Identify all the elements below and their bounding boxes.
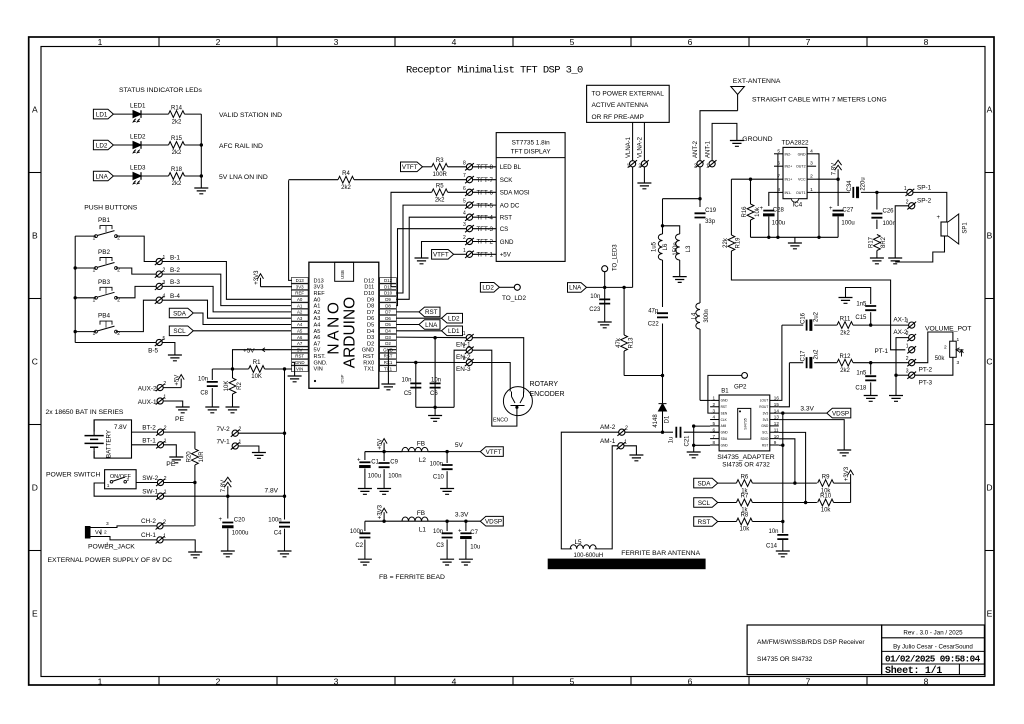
svg-text:B-1: B-1 <box>170 254 180 261</box>
svg-text:1n5: 1n5 <box>856 301 867 307</box>
svg-text:PB2: PB2 <box>98 249 111 256</box>
svg-text:10n: 10n <box>401 378 411 384</box>
svg-text:C3: C3 <box>436 543 444 549</box>
svg-text:OR RF PRE-AMP: OR RF PRE-AMP <box>592 114 645 121</box>
svg-text:4: 4 <box>163 294 166 300</box>
svg-text:A: A <box>987 105 993 115</box>
svg-text:RST: RST <box>363 354 375 360</box>
svg-text:R6: R6 <box>741 474 749 480</box>
svg-text:PB1: PB1 <box>98 217 111 224</box>
svg-text:GROUND: GROUND <box>742 136 772 143</box>
svg-text:RST: RST <box>425 309 438 316</box>
svg-text:14: 14 <box>774 408 780 413</box>
svg-text:REF: REF <box>295 291 304 296</box>
svg-text:2: 2 <box>463 235 466 241</box>
svg-text:D13: D13 <box>314 278 324 284</box>
svg-text:VTFT: VTFT <box>486 449 502 456</box>
svg-text:AX-1: AX-1 <box>893 316 908 323</box>
svg-text:2: 2 <box>944 345 947 351</box>
svg-text:CS: CS <box>500 226 509 233</box>
svg-text:C23: C23 <box>589 307 601 313</box>
svg-text:EN-3: EN-3 <box>456 366 471 373</box>
svg-text:3: 3 <box>906 369 909 375</box>
svg-text:LD1: LD1 <box>448 328 460 335</box>
svg-text:CLK: CLK <box>721 418 728 422</box>
svg-text:+: + <box>357 458 361 464</box>
svg-text:L5: L5 <box>575 539 583 546</box>
svg-text:5: 5 <box>163 336 166 342</box>
svg-text:OUT1: OUT1 <box>796 191 806 195</box>
svg-text:2: 2 <box>463 344 466 350</box>
svg-text:By Julio Cesar - CesarSound: By Julio Cesar - CesarSound <box>893 643 973 650</box>
svg-text:B-5: B-5 <box>148 347 158 354</box>
svg-text:D10: D10 <box>364 291 374 297</box>
svg-text:1: 1 <box>98 676 103 686</box>
svg-text:Sheet: 1/1: Sheet: 1/1 <box>885 665 942 677</box>
svg-text:GND: GND <box>761 424 769 428</box>
svg-text:7V-2: 7V-2 <box>217 426 231 433</box>
svg-text:2u2: 2u2 <box>814 311 820 322</box>
svg-text:D7: D7 <box>385 310 391 315</box>
svg-text:TFT-3: TFT-3 <box>477 226 494 233</box>
svg-text:SDA MOSI: SDA MOSI <box>500 190 530 197</box>
svg-text:R9: R9 <box>822 474 830 480</box>
svg-text:R16: R16 <box>742 206 748 218</box>
svg-text:2: 2 <box>164 476 167 482</box>
svg-text:AX-2: AX-2 <box>893 329 908 336</box>
svg-text:+: + <box>219 517 223 523</box>
svg-text:5: 5 <box>463 199 466 205</box>
svg-text:C26: C26 <box>883 208 895 214</box>
svg-text:VALID STATION IND: VALID STATION IND <box>219 112 282 119</box>
svg-text:2k2: 2k2 <box>172 181 182 187</box>
svg-text:A3: A3 <box>297 316 303 321</box>
svg-text:A5: A5 <box>314 329 321 335</box>
svg-text:A3: A3 <box>314 316 321 322</box>
svg-text:R18: R18 <box>171 167 183 173</box>
svg-text:D: D <box>986 483 992 493</box>
svg-text:PB3: PB3 <box>98 279 111 286</box>
svg-text:10n: 10n <box>590 294 600 300</box>
svg-text:STRAIGHT CABLE WITH 7 METERS L: STRAIGHT CABLE WITH 7 METERS LONG <box>752 97 887 104</box>
svg-text:L6: L6 <box>663 243 669 250</box>
svg-text:CH-2: CH-2 <box>141 518 156 525</box>
svg-text:SI4735 OR SI4732: SI4735 OR SI4732 <box>757 656 813 663</box>
svg-text:150n: 150n <box>673 242 679 255</box>
svg-text:3.3V: 3.3V <box>455 512 469 519</box>
svg-text:E: E <box>987 609 993 619</box>
svg-text:AUX-2: AUX-2 <box>138 385 157 392</box>
svg-text:D: D <box>32 483 38 493</box>
svg-text:D2: D2 <box>367 341 374 347</box>
svg-text:10k: 10k <box>740 527 751 533</box>
svg-text:V: V <box>95 530 99 536</box>
svg-text:SCL: SCL <box>698 500 711 507</box>
svg-text:L4: L4 <box>692 312 698 319</box>
svg-text:C4: C4 <box>274 531 282 537</box>
svg-text:E: E <box>32 609 38 619</box>
svg-text:R15: R15 <box>171 136 183 142</box>
svg-text:2k2: 2k2 <box>840 330 850 336</box>
svg-text:CH-1: CH-1 <box>141 532 156 539</box>
svg-text:C16: C16 <box>801 312 807 324</box>
svg-text:D11: D11 <box>364 285 374 291</box>
svg-text:GND: GND <box>721 431 729 435</box>
svg-text:LOUT: LOUT <box>760 399 769 403</box>
svg-text:7.8V: 7.8V <box>832 163 838 175</box>
svg-text:R14: R14 <box>171 105 183 111</box>
svg-text:GND: GND <box>500 239 514 246</box>
svg-text:GND: GND <box>798 152 806 156</box>
svg-text:1u: 1u <box>668 437 674 444</box>
svg-text:VIN: VIN <box>296 366 303 371</box>
svg-text:2: 2 <box>638 163 641 169</box>
svg-text:B-4: B-4 <box>170 293 180 300</box>
svg-text:+5V: +5V <box>378 439 384 450</box>
svg-text:TFT-7: TFT-7 <box>477 177 494 184</box>
svg-text:TFT-1: TFT-1 <box>477 252 494 259</box>
svg-text:A6: A6 <box>297 335 303 340</box>
svg-text:4: 4 <box>463 211 466 217</box>
svg-text:D5: D5 <box>385 322 391 327</box>
svg-text:VDSP: VDSP <box>485 519 502 526</box>
svg-text:2x 18650 BAT IN SERIES: 2x 18650 BAT IN SERIES <box>46 409 124 416</box>
svg-text:22k: 22k <box>723 237 729 248</box>
svg-text:10n: 10n <box>768 529 778 535</box>
svg-text:ACTIVE ANTENNA: ACTIVE ANTENNA <box>592 102 649 109</box>
svg-text:BATTERY: BATTERY <box>106 430 113 458</box>
svg-text:A2: A2 <box>314 310 321 316</box>
svg-text:VDSP: VDSP <box>832 410 849 417</box>
svg-text:8: 8 <box>924 676 929 686</box>
svg-text:REF: REF <box>314 291 326 297</box>
svg-text:300n: 300n <box>704 309 710 322</box>
svg-text:LNA: LNA <box>569 285 582 292</box>
svg-text:GND: GND <box>721 399 729 403</box>
svg-text:10u: 10u <box>470 545 480 551</box>
svg-text:AMI: AMI <box>721 424 727 428</box>
svg-text:3V3: 3V3 <box>763 418 769 422</box>
svg-text:2: 2 <box>216 37 221 47</box>
svg-text:1: 1 <box>98 37 103 47</box>
svg-text:2: 2 <box>163 519 166 525</box>
svg-text:L3: L3 <box>686 245 692 252</box>
svg-text:+3V3: +3V3 <box>844 466 850 481</box>
svg-text:1: 1 <box>627 163 630 169</box>
svg-text:SP1: SP1 <box>963 222 969 234</box>
svg-text:10K: 10K <box>224 381 230 392</box>
svg-text:C34: C34 <box>847 180 853 192</box>
svg-text:D7: D7 <box>367 310 374 316</box>
svg-text:6: 6 <box>463 186 466 192</box>
svg-text:SDIO: SDIO <box>761 437 769 441</box>
svg-text:SDA: SDA <box>173 310 187 317</box>
svg-text:IN1+: IN1+ <box>785 178 793 182</box>
svg-text:C7: C7 <box>470 530 478 536</box>
svg-text:5V: 5V <box>314 348 321 354</box>
svg-text:+3V3: +3V3 <box>254 270 260 285</box>
svg-text:3: 3 <box>810 161 813 167</box>
svg-text:LED BL: LED BL <box>500 164 522 171</box>
svg-text:LNA: LNA <box>96 173 109 180</box>
svg-text:VLNA-1: VLNA-1 <box>626 136 632 158</box>
svg-text:16: 16 <box>774 396 780 401</box>
svg-text:TX1: TX1 <box>364 367 374 373</box>
svg-text:ICSP: ICSP <box>341 374 345 383</box>
svg-text:3: 3 <box>334 37 339 47</box>
svg-text:2u2: 2u2 <box>814 349 820 360</box>
svg-text:47p: 47p <box>648 309 659 315</box>
svg-text:1000u: 1000u <box>232 531 249 537</box>
svg-text:RST: RST <box>500 215 513 222</box>
svg-text:TFT-5: TFT-5 <box>477 202 494 209</box>
svg-text:+5V: +5V <box>243 348 255 355</box>
svg-text:TDA2822: TDA2822 <box>782 140 809 147</box>
svg-text:2: 2 <box>810 174 813 180</box>
svg-text:C2: C2 <box>355 543 363 549</box>
svg-text:1: 1 <box>906 343 909 349</box>
svg-text:10: 10 <box>774 434 780 439</box>
svg-text:PE: PE <box>166 461 176 468</box>
svg-text:5: 5 <box>570 37 575 47</box>
svg-text:TFT-6: TFT-6 <box>477 190 494 197</box>
svg-text:3.3V: 3.3V <box>800 406 814 413</box>
svg-text:7: 7 <box>713 434 716 439</box>
svg-text:A1: A1 <box>314 304 321 310</box>
svg-text:2k2: 2k2 <box>172 119 182 125</box>
svg-text:SP-2: SP-2 <box>917 198 932 205</box>
svg-text:D2: D2 <box>385 341 391 346</box>
svg-text:7: 7 <box>463 173 466 179</box>
svg-text:+: + <box>937 215 941 221</box>
svg-text:ROUT: ROUT <box>759 405 768 409</box>
svg-text:AUX-1: AUX-1 <box>138 399 157 406</box>
svg-text:RST: RST <box>762 443 768 447</box>
svg-text:12: 12 <box>774 421 780 426</box>
svg-text:EXT-ANTENNA: EXT-ANTENNA <box>733 78 781 85</box>
svg-text:C5: C5 <box>404 391 412 397</box>
svg-text:TO_LED3: TO_LED3 <box>613 244 619 271</box>
svg-text:SDA: SDA <box>721 437 728 441</box>
svg-text:2k2: 2k2 <box>435 198 445 204</box>
svg-text:IN2+: IN2+ <box>785 165 793 169</box>
svg-text:POWER SWITCH: POWER SWITCH <box>46 472 100 479</box>
svg-text:C20: C20 <box>234 517 246 523</box>
svg-text:C9: C9 <box>390 459 398 465</box>
svg-text:10n: 10n <box>433 529 443 535</box>
svg-text:D5: D5 <box>367 323 374 329</box>
svg-text:R7: R7 <box>741 494 749 500</box>
svg-text:C27: C27 <box>842 207 854 213</box>
svg-text:R11: R11 <box>840 316 851 322</box>
svg-text:PT-2: PT-2 <box>919 367 933 374</box>
svg-text:R4: R4 <box>342 171 350 177</box>
svg-text:7.8V: 7.8V <box>114 424 128 431</box>
svg-text:FERRITE BAR ANTENNA: FERRITE BAR ANTENNA <box>621 550 700 557</box>
svg-text:LD2: LD2 <box>482 285 494 292</box>
svg-text:100-600uH: 100-600uH <box>574 553 604 559</box>
svg-text:D4: D4 <box>367 329 374 335</box>
svg-text:RST: RST <box>698 519 711 526</box>
svg-text:B-2: B-2 <box>170 267 180 274</box>
svg-text:5V LNA ON IND: 5V LNA ON IND <box>219 174 268 181</box>
svg-text:FB = FERRITE BEAD: FB = FERRITE BEAD <box>379 574 445 581</box>
svg-text:A5: A5 <box>297 329 303 334</box>
svg-text:2: 2 <box>164 426 167 432</box>
svg-text:VTFT: VTFT <box>433 252 449 259</box>
svg-text:8: 8 <box>713 440 716 445</box>
svg-text:SEN: SEN <box>721 411 728 415</box>
svg-text:+5V: +5V <box>500 252 512 259</box>
svg-text:3: 3 <box>463 222 466 228</box>
svg-text:IC4: IC4 <box>793 202 803 209</box>
svg-text:D3: D3 <box>367 335 374 341</box>
svg-text:SP-1: SP-1 <box>917 184 932 191</box>
svg-text:2: 2 <box>625 426 628 432</box>
svg-text:VCC: VCC <box>798 178 806 182</box>
svg-text:2: 2 <box>104 530 107 536</box>
svg-text:D6: D6 <box>367 316 374 322</box>
svg-text:3: 3 <box>957 360 960 366</box>
svg-text:3V3: 3V3 <box>763 411 769 415</box>
svg-text:3: 3 <box>463 356 466 362</box>
svg-text:A7: A7 <box>314 341 321 347</box>
svg-text:100R: 100R <box>433 172 448 178</box>
svg-text:+3V3: +3V3 <box>378 504 384 519</box>
svg-text:ROTARY: ROTARY <box>530 381 559 388</box>
svg-text:11: 11 <box>774 427 779 432</box>
svg-text:1: 1 <box>239 440 242 446</box>
svg-text:2: 2 <box>127 477 130 483</box>
svg-text:FB: FB <box>417 510 425 517</box>
svg-text:2: 2 <box>163 268 166 274</box>
svg-text:PT-3: PT-3 <box>919 379 933 386</box>
svg-text:1: 1 <box>463 248 466 254</box>
svg-text:1: 1 <box>163 255 166 261</box>
svg-text:SW-1: SW-1 <box>142 489 158 496</box>
svg-text:C15: C15 <box>855 315 867 321</box>
svg-text:8R2: 8R2 <box>881 236 887 248</box>
svg-text:100n: 100n <box>883 221 896 227</box>
svg-text:LD2: LD2 <box>448 316 460 323</box>
svg-text:8: 8 <box>463 160 466 166</box>
svg-text:1: 1 <box>107 483 110 489</box>
svg-text:C: C <box>32 357 38 367</box>
svg-text:C22: C22 <box>648 321 660 327</box>
svg-text:ST7735 1.8in: ST7735 1.8in <box>512 139 550 146</box>
svg-text:R2: R2 <box>237 382 243 390</box>
svg-text:10k: 10k <box>821 508 832 514</box>
svg-text:SI4735_ADAPTER: SI4735_ADAPTER <box>717 454 775 461</box>
svg-text:A1: A1 <box>297 303 303 308</box>
svg-text:TFT DISPLAY: TFT DISPLAY <box>511 148 552 155</box>
svg-text:2: 2 <box>906 356 909 362</box>
svg-text:GND: GND <box>362 348 374 354</box>
svg-text:SDA: SDA <box>697 480 711 487</box>
svg-text:FB: FB <box>417 441 425 448</box>
svg-text:RST: RST <box>721 405 727 409</box>
svg-text:3V3: 3V3 <box>296 284 304 289</box>
svg-text:EXTERNAL POWER SUPPLY OF 8V DC: EXTERNAL POWER SUPPLY OF 8V DC <box>48 557 173 564</box>
svg-text:5: 5 <box>570 676 575 686</box>
svg-text:1u5: 1u5 <box>652 241 658 252</box>
svg-text:IN2-: IN2- <box>785 152 793 156</box>
svg-text:NANO: NANO <box>326 299 343 354</box>
svg-text:D13: D13 <box>296 278 305 283</box>
svg-text:C8: C8 <box>200 390 208 396</box>
svg-text:LD2: LD2 <box>96 142 108 149</box>
svg-text:LD1: LD1 <box>96 111 108 118</box>
svg-text:1: 1 <box>164 490 167 496</box>
svg-text:4: 4 <box>452 676 457 686</box>
svg-text:SI4735 OR 4732: SI4735 OR 4732 <box>722 462 770 469</box>
svg-text:2k2: 2k2 <box>341 185 351 191</box>
svg-text:A6: A6 <box>314 335 321 341</box>
svg-text:SI4735: SI4735 <box>744 418 748 429</box>
svg-text:ENCO: ENCO <box>493 418 508 424</box>
svg-text:IN1-: IN1- <box>785 191 793 195</box>
svg-text:R17: R17 <box>869 236 875 248</box>
svg-text:2: 2 <box>239 427 242 433</box>
svg-text:+: + <box>760 206 764 212</box>
svg-text:Rev . 3.0 - Jan / 2025: Rev . 3.0 - Jan / 2025 <box>903 630 963 637</box>
svg-text:ANT-2: ANT-2 <box>693 140 699 158</box>
svg-text:LED3: LED3 <box>130 165 146 172</box>
svg-text:D8: D8 <box>367 304 374 310</box>
svg-text:2: 2 <box>713 402 716 407</box>
svg-text:100u: 100u <box>368 473 381 479</box>
svg-text:9: 9 <box>774 440 777 445</box>
svg-text:C18: C18 <box>855 386 867 392</box>
svg-text:7.8V: 7.8V <box>221 480 227 492</box>
svg-text:LED1: LED1 <box>130 103 146 110</box>
svg-text:A7: A7 <box>297 341 303 346</box>
svg-text:PE: PE <box>175 416 185 423</box>
svg-text:TO POWER EXTERNAL: TO POWER EXTERNAL <box>592 91 665 98</box>
svg-text:POWER_JACK: POWER_JACK <box>88 544 135 551</box>
svg-text:AM/FM/SW/SSB/RDS DSP Receiver: AM/FM/SW/SSB/RDS DSP Receiver <box>757 639 865 646</box>
svg-text:2k2: 2k2 <box>172 150 182 156</box>
svg-text:6: 6 <box>688 37 693 47</box>
svg-text:3: 3 <box>106 521 109 527</box>
svg-text:100u: 100u <box>772 220 785 226</box>
svg-text:SCL: SCL <box>762 431 768 435</box>
svg-text:GND: GND <box>295 360 305 365</box>
svg-text:R13: R13 <box>628 337 634 349</box>
svg-text:D9: D9 <box>367 297 374 303</box>
svg-text:R10: R10 <box>820 494 832 500</box>
svg-text:5: 5 <box>713 421 716 426</box>
svg-text:ENCODER: ENCODER <box>530 391 565 398</box>
svg-text:B: B <box>32 231 38 241</box>
svg-text:R1: R1 <box>253 360 261 366</box>
svg-text:3V3: 3V3 <box>314 285 324 291</box>
svg-text:2: 2 <box>163 381 166 387</box>
svg-text:ANT-1: ANT-1 <box>705 140 711 158</box>
svg-text:100n: 100n <box>430 461 443 467</box>
svg-text:AM-1: AM-1 <box>600 438 616 445</box>
svg-text:50k: 50k <box>935 356 946 362</box>
svg-text:1: 1 <box>706 163 709 169</box>
svg-text:STATUS INDICATOR LEDs: STATUS INDICATOR LEDs <box>119 87 203 94</box>
svg-text:BT-2: BT-2 <box>142 425 156 432</box>
svg-text:D10: D10 <box>384 291 393 296</box>
svg-text:C19: C19 <box>705 208 717 214</box>
svg-text:2: 2 <box>906 199 909 205</box>
svg-text:Receptor Minimalist TFT DSP 3_: Receptor Minimalist TFT DSP 3_0 <box>406 65 583 77</box>
svg-text:10n: 10n <box>431 378 441 384</box>
svg-text:+: + <box>458 529 462 535</box>
